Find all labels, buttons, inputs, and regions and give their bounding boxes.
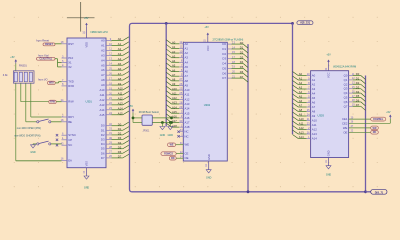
svg-text:A6: A6	[185, 70, 189, 74]
svg-text:D0: D0	[118, 122, 122, 126]
svg-text:RN301: RN301	[19, 65, 27, 68]
svg-text:D2: D2	[101, 133, 105, 137]
svg-text:A1: A1	[312, 78, 316, 82]
wire JP301 2b to U302 A17	[152, 122, 171, 124]
wire pullup lead2 to R/W label	[20, 83, 22, 102]
svg-text:Q5: Q5	[344, 96, 348, 100]
svg-text:D7: D7	[118, 155, 122, 159]
svg-text:D4: D4	[356, 90, 360, 94]
svg-text:GND: GND	[30, 151, 36, 154]
svg-text:A0: A0	[299, 72, 303, 76]
svg-text:A13: A13	[185, 102, 190, 106]
svg-text:VCC: VCC	[327, 72, 331, 78]
svg-text:+5V: +5V	[386, 111, 391, 114]
svg-text:A15: A15	[172, 110, 177, 114]
svg-text:A13: A13	[299, 131, 304, 135]
svg-text:A11: A11	[312, 123, 317, 127]
svg-text:A8: A8	[172, 78, 176, 82]
svg-text:A2: A2	[101, 48, 105, 52]
svg-text:X2: X2	[68, 65, 72, 69]
svg-text:A5: A5	[299, 95, 303, 99]
svg-text:+5V: +5V	[204, 26, 209, 29]
svg-text:A12: A12	[312, 128, 317, 132]
svg-text:A14: A14	[118, 107, 123, 111]
svg-text:Q1: Q1	[344, 78, 348, 82]
ground stub 2 on A17 select wire	[169, 121, 172, 124]
svg-text:A1: A1	[101, 43, 105, 47]
svg-text:A6: A6	[312, 101, 316, 105]
svg-text:D5: D5	[101, 147, 105, 151]
wire ground to switch SW2	[33, 143, 37, 145]
svg-text:+5V: +5V	[129, 105, 134, 108]
svg-text:A5: A5	[312, 96, 316, 100]
svg-text:A8: A8	[101, 78, 105, 82]
svg-text:+5V: +5V	[10, 56, 15, 59]
svg-text:Q4: Q4	[344, 91, 348, 95]
svg-text:A0: A0	[185, 42, 189, 46]
svg-text:Q6: Q6	[344, 100, 348, 104]
bus junction at A bus label	[291, 22, 294, 25]
svg-text:A9: A9	[118, 82, 122, 86]
bus junction U303 data	[364, 190, 367, 193]
svg-text:GND: GND	[327, 150, 331, 156]
svg-text:A10: A10	[172, 87, 177, 91]
svg-text:A1: A1	[172, 45, 176, 49]
svg-text:A15: A15	[185, 111, 190, 115]
svg-text:JP301: JP301	[143, 130, 150, 133]
wire RD to U302 OE	[176, 157, 183, 159]
bus junction U302 data	[247, 190, 250, 193]
wire pullup lead3 to switch SW1	[25, 83, 27, 122]
svg-text:D7: D7	[101, 156, 105, 160]
svg-text:A2: A2	[118, 47, 122, 51]
svg-text:A2: A2	[172, 50, 176, 54]
svg-text:A4: A4	[185, 60, 189, 64]
svg-text:A7: A7	[101, 73, 105, 77]
U301 VSS ground	[86, 168, 88, 176]
svg-text:A3: A3	[312, 87, 316, 91]
svg-text:A10: A10	[185, 88, 190, 92]
svg-text:SYNC: SYNC	[68, 133, 76, 137]
data bus horizontal bottom	[132, 191, 366, 193]
svg-text:A3: A3	[101, 53, 105, 57]
svg-text:WE: WE	[185, 143, 190, 147]
svg-text:27C080/0 (SIM w/ FLASH): 27C080/0 (SIM w/ FLASH)	[213, 38, 244, 42]
wire pullup lead4 to RDY pin	[30, 83, 32, 117]
address bus vertical to U302	[165, 23, 167, 126]
svg-text:A8: A8	[118, 77, 122, 81]
svg-text:A6: A6	[172, 68, 176, 72]
svg-text:A18: A18	[185, 125, 190, 129]
no-connect marks on U301 SYNC/CP/NC pins	[56, 134, 58, 136]
global label R/W	[49, 100, 56, 103]
svg-text:A0: A0	[312, 74, 316, 78]
svg-text:RD: RD	[171, 157, 175, 160]
svg-text:WDI: WDI	[49, 82, 54, 85]
svg-text:N80C320 uPU: N80C320 uPU	[91, 30, 108, 34]
svg-text:D5: D5	[118, 145, 122, 149]
svg-text:A5: A5	[101, 63, 105, 67]
svg-text:A[0..15]: A[0..15]	[300, 21, 310, 25]
svg-text:CLK(XTAL): CLK(XTAL)	[39, 57, 52, 60]
address bus vertical to U303	[292, 23, 294, 134]
svg-text:GND: GND	[326, 173, 332, 176]
wire R/W label to pin	[56, 101, 61, 103]
svg-text:R/W: R/W	[68, 100, 74, 104]
svg-text:D1: D1	[118, 127, 122, 131]
global label WDI	[48, 81, 56, 84]
wire pullup lead1 to EA pin	[15, 83, 17, 161]
svg-text:WE: WE	[170, 144, 174, 147]
svg-text:D5: D5	[222, 66, 226, 70]
svg-text:A10: A10	[118, 87, 123, 91]
global label RESET	[43, 43, 55, 46]
graphic cross lines near +5V rail	[80, 2, 82, 32]
svg-text:A2: A2	[312, 83, 316, 87]
ground stub 1 on A17 select wire	[161, 121, 164, 124]
wire XTAL label to X1/X2 pins	[55, 58, 58, 60]
svg-text:GND: GND	[207, 154, 211, 160]
svg-text:A13: A13	[118, 102, 123, 106]
svg-text:A1: A1	[118, 42, 122, 46]
svg-text:W24512A 64K RAM: W24512A 64K RAM	[333, 65, 356, 69]
svg-text:VDD: VDD	[84, 42, 88, 48]
global label RAMCS	[371, 117, 386, 121]
svg-text:A12: A12	[185, 97, 190, 101]
svg-text:D7: D7	[356, 103, 360, 107]
svg-text:A4: A4	[312, 92, 316, 96]
svg-text:A8: A8	[299, 108, 303, 112]
svg-text:A12: A12	[299, 126, 304, 130]
svg-text:A12: A12	[172, 96, 177, 100]
svg-text:D6: D6	[118, 150, 122, 154]
bus label D[0..7]	[371, 189, 387, 194]
svg-text:U301: U301	[86, 100, 93, 104]
svg-text:D1: D1	[222, 47, 226, 51]
U301 data pins D0-D7 with net labels and bus entries	[101, 122, 130, 160]
switch SW2 (WDG short)	[37, 143, 39, 145]
svg-text:+5V: +5V	[84, 17, 89, 20]
wire +5V to JP301 pin 1a	[133, 117, 142, 119]
svg-text:A10: A10	[100, 88, 105, 92]
svg-text:A8: A8	[312, 110, 316, 114]
wire SW2 to SYNC pin	[51, 143, 62, 145]
U303 data pins Q0-Q7 to data bus	[344, 72, 366, 111]
global label RD for U303	[371, 131, 379, 135]
svg-text:D1: D1	[101, 128, 105, 132]
svg-text:RST: RST	[68, 42, 74, 46]
svg-text:A15: A15	[118, 111, 123, 115]
svg-text:D3: D3	[222, 57, 226, 61]
svg-text:D6: D6	[101, 151, 105, 155]
svg-text:D3: D3	[356, 85, 360, 89]
svg-text:non-WDG SHORT(PIN): non-WDG SHORT(PIN)	[14, 134, 41, 137]
svg-text:A9: A9	[185, 83, 189, 87]
U302 address pins A0-A18 with bus entries	[166, 40, 190, 129]
wire +5V to JP301 pin 2a	[133, 122, 142, 124]
svg-text:A7: A7	[312, 105, 316, 109]
U302 data pins D0-D7 to data bus	[222, 40, 248, 82]
svg-text:A9: A9	[312, 114, 316, 118]
svg-text:A11: A11	[299, 122, 304, 126]
microcontroller U301 body	[67, 38, 106, 168]
svg-text:A5: A5	[172, 64, 176, 68]
svg-text:A6: A6	[118, 67, 122, 71]
svg-text:A5: A5	[118, 62, 122, 66]
svg-text:ROMSEL: ROMSEL	[373, 118, 384, 121]
svg-text:non-WDI OPEN (PIN): non-WDI OPEN (PIN)	[17, 127, 41, 130]
svg-text:A1: A1	[299, 77, 303, 81]
bus junction at U302 address tap	[165, 22, 168, 25]
svg-text:A11: A11	[118, 92, 123, 96]
svg-text:A18: A18	[172, 124, 177, 128]
svg-text:GND: GND	[160, 134, 166, 137]
data bus vertical from U303	[365, 76, 367, 192]
switch SW1 (WDI open)	[37, 121, 39, 123]
svg-text:A17: A17	[185, 121, 190, 125]
svg-text:Q2: Q2	[344, 82, 348, 86]
svg-text:BE: BE	[68, 120, 72, 124]
svg-text:A0: A0	[101, 39, 105, 43]
jumper JP301 body	[142, 115, 152, 125]
svg-text:CE2: CE2	[342, 121, 348, 125]
svg-text:A11: A11	[172, 91, 177, 95]
global label WE for U302	[168, 143, 176, 147]
svg-text:A13: A13	[100, 103, 105, 107]
svg-text:A4: A4	[118, 57, 122, 61]
svg-text:U303: U303	[318, 114, 325, 118]
svg-text:Q0: Q0	[344, 74, 348, 78]
EPROM U302 body	[183, 42, 227, 161]
svg-text:A14: A14	[299, 135, 304, 139]
svg-text:D6: D6	[356, 99, 360, 103]
svg-text:A13: A13	[172, 101, 177, 105]
svg-text:A14: A14	[100, 108, 105, 112]
wire U303 CE2 to +5V	[349, 122, 391, 124]
svg-text:from I/O: from I/O	[38, 77, 47, 81]
svg-text:A12: A12	[100, 98, 105, 102]
address bus horizontal top	[132, 22, 293, 24]
svg-text:A1: A1	[185, 46, 189, 50]
svg-text:D2: D2	[356, 81, 360, 85]
svg-text:Q7: Q7	[344, 104, 348, 108]
svg-text:A9: A9	[172, 82, 176, 86]
wire WDI label to TXD pin	[55, 82, 58, 84]
svg-text:R/W: R/W	[50, 101, 55, 104]
svg-text:D3: D3	[118, 136, 122, 140]
svg-text:A7: A7	[172, 73, 176, 77]
wire JP301 1b to U302 A16	[152, 117, 171, 119]
svg-text:VCC: VCC	[206, 45, 210, 51]
data bus vertical from U302	[247, 44, 249, 192]
svg-text:A11: A11	[100, 93, 105, 97]
svg-text:A7: A7	[185, 74, 189, 78]
svg-text:OE: OE	[185, 156, 189, 160]
svg-text:A9: A9	[101, 83, 105, 87]
wire RESET label to RST pin	[55, 43, 62, 45]
svg-text:A7: A7	[118, 72, 122, 76]
svg-text:A0: A0	[118, 37, 122, 41]
svg-text:A4: A4	[101, 58, 105, 62]
U303 address pins A0-A14 with bus entries	[293, 72, 318, 141]
svg-text:D2: D2	[222, 52, 226, 56]
svg-text:CE: CE	[185, 152, 189, 156]
wire U303 WE to WR label	[349, 127, 371, 129]
svg-text:WR: WR	[373, 127, 377, 130]
svg-text:3.3k: 3.3k	[3, 74, 8, 77]
svg-text:A3: A3	[299, 86, 303, 90]
svg-text:RDY: RDY	[68, 115, 74, 119]
svg-text:D4: D4	[222, 62, 226, 66]
ground for switch SW2	[32, 143, 34, 146]
svg-text:RESET: RESET	[45, 43, 54, 46]
svg-text:D6: D6	[222, 71, 226, 75]
svg-text:D4: D4	[101, 142, 105, 146]
svg-text:+5V: +5V	[326, 53, 331, 56]
svg-text:GND: GND	[168, 134, 174, 137]
svg-text:A14: A14	[312, 137, 317, 141]
U303 GND ground	[328, 158, 330, 166]
svg-text:A2: A2	[185, 51, 189, 55]
svg-text:A5: A5	[185, 65, 189, 69]
global label WR	[371, 126, 379, 130]
svg-text:RXD: RXD	[68, 84, 74, 88]
U302 GND ground	[208, 161, 210, 170]
svg-text:EA: EA	[68, 158, 72, 162]
svg-text:D0: D0	[222, 42, 226, 46]
svg-text:RD: RD	[373, 131, 377, 134]
svg-text:A12: A12	[118, 97, 123, 101]
svg-text:A8: A8	[185, 79, 189, 83]
svg-text:D5: D5	[356, 94, 360, 98]
svg-text:CP: CP	[68, 138, 72, 142]
svg-text:D2: D2	[118, 132, 122, 136]
svg-text:A7: A7	[299, 104, 303, 108]
svg-text:A11: A11	[185, 93, 190, 97]
svg-text:A3: A3	[172, 54, 176, 58]
svg-text:X1: X1	[68, 61, 72, 65]
global label ROMCS for U302	[161, 152, 176, 156]
data bus tail to label	[366, 191, 371, 193]
svg-text:D1: D1	[356, 77, 360, 81]
svg-text:GND: GND	[84, 187, 90, 190]
global label RD for U302	[169, 156, 176, 160]
wire WE to U302	[176, 144, 184, 146]
svg-text:A0: A0	[172, 41, 176, 45]
address/data bus vertical segment left	[130, 23, 133, 191]
wire U303 CE1 to RAMCS label	[349, 118, 371, 120]
svg-text:A6: A6	[101, 68, 105, 72]
svg-text:Q3: Q3	[344, 87, 348, 91]
SRAM U303 body	[311, 71, 349, 158]
svg-text:A4: A4	[172, 59, 176, 63]
svg-text:A16: A16	[185, 116, 190, 120]
svg-text:A14: A14	[172, 105, 177, 109]
global label XTAL1	[37, 57, 56, 60]
wire SW1 to BE pin	[51, 121, 62, 123]
svg-text:A4: A4	[299, 90, 303, 94]
svg-text:A15: A15	[100, 113, 105, 117]
svg-text:A9: A9	[299, 113, 303, 117]
svg-text:A6: A6	[299, 99, 303, 103]
svg-text:P10: P10	[68, 56, 73, 60]
svg-text:D[0..7]: D[0..7]	[375, 190, 383, 194]
svg-text:GND: GND	[206, 176, 212, 179]
svg-text:A3: A3	[118, 52, 122, 56]
svg-text:D3: D3	[101, 138, 105, 142]
svg-text:A14: A14	[185, 107, 190, 111]
svg-text:D0: D0	[101, 124, 105, 128]
U301 left side pins with numbers	[61, 40, 76, 162]
svg-text:A3: A3	[185, 56, 189, 60]
resistor pack RN301 body	[14, 71, 35, 83]
U301 address pins A0-A15 with net labels and bus entries	[100, 37, 130, 117]
svg-text:D7: D7	[222, 76, 226, 80]
svg-text:A10: A10	[312, 119, 317, 123]
svg-text:A10: A10	[299, 117, 304, 121]
svg-text:D0: D0	[356, 72, 360, 76]
svg-text:WE: WE	[343, 126, 348, 130]
svg-text:VSS: VSS	[84, 161, 88, 166]
svg-text:ROMCS: ROMCS	[164, 153, 173, 156]
svg-text:NC: NC	[68, 143, 72, 147]
U302 NC pins with no-connects	[180, 131, 184, 133]
svg-text:OE: OE	[343, 130, 347, 134]
wire ROMCS to U302 CE	[176, 153, 183, 155]
svg-text:D4: D4	[118, 141, 122, 145]
svg-text:A2: A2	[299, 81, 303, 85]
svg-text:A13: A13	[312, 132, 317, 136]
wire U303 OE to RD label	[349, 131, 371, 133]
svg-text:ROM Boot Select: ROM Boot Select	[139, 110, 159, 114]
svg-text:from Reset: from Reset	[36, 39, 49, 43]
svg-text:NC: NC	[185, 134, 189, 138]
svg-text:NC: NC	[185, 130, 189, 134]
bus label A[0..15]	[297, 21, 313, 25]
svg-text:U302: U302	[204, 103, 211, 107]
